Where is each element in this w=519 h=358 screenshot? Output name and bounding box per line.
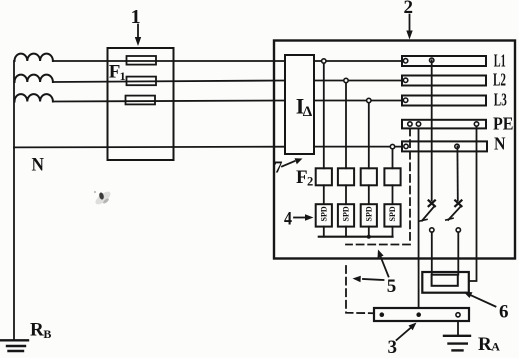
wire fuse F2d to SPD4 — [392, 185, 394, 204]
svg-text:1: 1 — [131, 6, 141, 28]
svg-text:2: 2 — [404, 0, 414, 18]
box 2: distribution board outline — [274, 41, 515, 259]
transformer winding L3 — [15, 94, 53, 101]
node L1 busbar feed — [403, 59, 407, 63]
svg-text:6: 6 — [499, 302, 509, 323]
svg-text:R: R — [30, 320, 44, 341]
busbar PE — [402, 120, 486, 129]
device 6 (RCD test / monitoring unit) — [422, 272, 469, 293]
node L2 busbar feed — [403, 78, 407, 82]
svg-text:SPD: SPD — [388, 206, 397, 221]
ground RA — [444, 336, 470, 351]
node N busbar switch tap — [455, 144, 459, 148]
node PE busbar a — [408, 122, 412, 126]
wire N from neutral point to RCD — [14, 146, 285, 149]
wire L3 RCD to busbar — [314, 100, 402, 102]
busbar N — [402, 141, 487, 151]
ground RB — [0, 340, 28, 351]
node earth bar middle — [416, 312, 421, 317]
svg-text:L2: L2 — [493, 70, 506, 90]
wire L2 RCD to busbar — [314, 80, 402, 82]
node L1 busbar switch tap — [430, 58, 434, 62]
dashed earthing conductor 5 upper run — [346, 129, 410, 245]
node on wire L3 — [367, 98, 371, 102]
svg-text:5: 5 — [387, 276, 397, 297]
transformer winding L1 — [15, 54, 53, 61]
surge arrester SPD3 — [361, 204, 377, 226]
RCD I-delta U7 — [285, 55, 314, 154]
earthing bar 3 — [374, 308, 469, 321]
wire L1 from winding to RCD — [53, 60, 285, 62]
fuse F2 pole d — [384, 168, 400, 185]
node PE busbar b — [416, 122, 420, 126]
scan smudge artifact — [93, 189, 112, 206]
node PE busbar right — [474, 122, 478, 126]
wire drop N to fuse F2d — [392, 147, 394, 169]
switch S2 blade — [448, 207, 460, 220]
wire L3 from winding to RCD — [53, 101, 285, 102]
wire SPD3 to earth bus — [368, 227, 370, 237]
node earth bar right — [456, 313, 460, 317]
svg-text:N: N — [32, 154, 45, 175]
switch S1 terminal — [430, 228, 434, 232]
busbar L2 — [402, 76, 486, 86]
svg-text:1: 1 — [120, 69, 126, 83]
svg-text:N: N — [494, 133, 506, 153]
wire drop L2 to fuse F2b — [345, 81, 347, 169]
wire earth bar to ground RA — [457, 321, 459, 335]
wire PE busbar right down to device 6 — [469, 124, 477, 281]
node N busbar feed — [404, 144, 408, 148]
fuse F1 pole L1 — [127, 56, 157, 65]
device 6 inner element — [432, 275, 458, 286]
fuse F1 pole L3 — [126, 96, 156, 105]
svg-text:2: 2 — [307, 175, 313, 189]
fuse box F1 — [108, 48, 174, 160]
surge arrester SPD1 — [316, 204, 332, 226]
node earth bar left — [380, 312, 385, 317]
wire drop L1 to fuse F2a — [323, 61, 325, 168]
svg-text:F: F — [296, 167, 308, 188]
switch S2 blade tick — [446, 218, 453, 220]
fuse F2 pole a — [316, 168, 332, 185]
node on wire N — [390, 144, 394, 148]
wire L2 from winding to RCD — [53, 81, 285, 83]
switch S2 wire from N busbar — [456, 146, 458, 200]
wire SPD2 to earth bus — [345, 227, 347, 237]
wire SPD1 to earth bus — [323, 227, 325, 237]
wire fuse F2a to SPD1 — [323, 185, 325, 204]
fuse F1 pole L2 — [127, 77, 157, 86]
fuse F2 pole b — [338, 168, 354, 185]
svg-text:SPD: SPD — [342, 206, 351, 221]
switch S1 wire from L1 busbar — [431, 60, 433, 200]
svg-text:B: B — [43, 327, 51, 341]
switch S1 blade — [422, 207, 434, 221]
svg-text:L3: L3 — [494, 89, 507, 109]
surge arrester SPD4 — [384, 204, 400, 226]
svg-text:Δ: Δ — [303, 104, 313, 120]
busbar L3 — [402, 96, 486, 106]
wire switch S2 to device 6 — [457, 232, 459, 275]
svg-text:SPD: SPD — [319, 206, 328, 221]
switch S1 blade tick — [420, 219, 427, 221]
wire N RCD to busbar — [314, 146, 402, 148]
wire drop L3 to fuse F2c — [368, 101, 370, 169]
transformer winding L2 — [15, 75, 53, 82]
svg-text:L1: L1 — [494, 50, 506, 70]
switch S2 terminal — [456, 228, 460, 232]
wire switch S1 to device 6 — [431, 232, 433, 275]
switch S2 contact cross — [455, 200, 461, 206]
svg-text:A: A — [491, 340, 500, 354]
wire neutral point down-conductor to earth RB — [13, 61, 15, 340]
busbar L1 — [402, 56, 486, 66]
node on wire L2 — [344, 78, 348, 82]
wire fuse F2c to SPD3 — [368, 185, 370, 204]
wire PE busbar down to earth bar 3 — [418, 129, 420, 315]
fuse F2 pole c — [361, 168, 377, 185]
wire fuse F2b to SPD2 — [345, 185, 347, 204]
svg-text:R: R — [478, 334, 492, 355]
svg-text:SPD: SPD — [364, 206, 373, 221]
junction on earth bus — [367, 235, 371, 239]
svg-text:4: 4 — [284, 209, 292, 230]
node L3 busbar feed — [403, 98, 407, 102]
wire L1 RCD to busbar — [314, 60, 402, 62]
SPD common earth bus — [319, 236, 393, 238]
svg-text:PE: PE — [493, 114, 514, 134]
node on wire L1 — [322, 59, 326, 63]
surge arrester SPD2 — [338, 204, 354, 226]
switch S1 contact cross — [429, 200, 435, 206]
dashed earthing conductor 5 lower run — [346, 266, 373, 313]
wire SPD4 to earth bus — [392, 227, 394, 237]
